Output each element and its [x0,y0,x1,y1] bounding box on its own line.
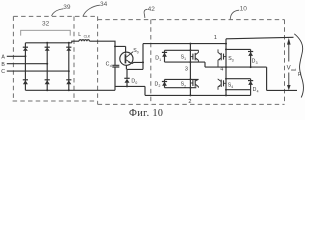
wire phase B [7,63,47,65]
node dot mid-line at right leg [225,66,227,68]
bridge diode lower leg2 [45,80,50,85]
IGBT S1 [190,50,198,62]
bridge leg 2 [46,43,48,91]
label 10 with leader [240,6,248,13]
load R [294,34,303,98]
diode D0 [124,78,129,86]
node A-leg1 junction [24,55,26,57]
node dots S2 cell [189,78,191,80]
svg-text:10: 10 [240,6,248,13]
node dots S4 cell and DC- rail [225,78,227,80]
rectifier bridge 32: top rail [25,42,71,44]
svg-text:R: R [298,72,302,78]
node dots S1 cell [189,49,191,51]
dashed right edge of box 34 / left edge of box 10 [97,16,99,104]
svg-text:0: 0 [137,51,139,55]
wire S2 cell bottom [165,87,197,89]
input terminal C [1,69,5,75]
svg-text:2: 2 [184,84,186,88]
svg-text:4: 4 [231,85,233,89]
node dots DC+ rail [189,43,191,45]
label 42 with leader [148,6,156,13]
node dots S3 cell [225,48,227,50]
label 39 with leader [63,4,71,11]
wire DC+ rail [143,43,226,45]
dashed left edge of box 42 (inverter section) [150,20,152,105]
svg-text:1: 1 [159,58,161,62]
inductor L_CLK [79,40,89,41]
V_out measurement arrow [287,38,291,90]
bridge diode upper leg3 [66,47,71,51]
wire bridge output jog [72,41,79,43]
bridge leg 1 [24,43,26,91]
node 1 [214,35,217,41]
label 32 with bracket over rectifier [42,21,50,28]
svg-text:CLK: CLK [84,35,91,39]
svg-text:2: 2 [159,84,161,88]
node emitter junction [142,61,144,63]
diode D3 [248,49,253,67]
IGBT S3 (mirrored) [218,49,226,67]
wire node 3 step [205,62,267,67]
bridge leg 3 [68,43,70,91]
wire bottom DC- rail [145,94,251,96]
wire S2 cell top [165,78,199,80]
node 2 [188,99,191,105]
dashed enclosure box 39 (rectifier section) [13,16,98,101]
diode D1 [162,50,167,62]
svg-text:Фиг. 10: Фиг. 10 [129,108,163,119]
svg-text:42: 42 [148,6,156,13]
svg-text:B: B [1,62,5,68]
transistor S0 (circled) [120,52,133,66]
bridge diode lower leg3 [66,80,71,85]
svg-text:V: V [287,66,291,72]
wire mid bottom rail (raised) [115,86,145,95]
svg-text:2: 2 [188,99,191,105]
svg-text:A: A [1,54,5,60]
wire S4 cell top [226,78,251,80]
svg-text:1: 1 [214,35,217,41]
wire DC link to switch S0 [115,46,126,53]
dashed divider between box 39 and box 34 [73,16,75,101]
dashed outer box 10 [98,20,285,105]
svg-text:3: 3 [256,61,258,65]
svg-text:0: 0 [135,81,137,85]
wire S0 emitter to corner [132,62,143,63]
svg-text:1: 1 [184,57,186,61]
bridge diode upper leg2 [45,47,50,51]
svg-text:34: 34 [100,1,108,8]
svg-text:4: 4 [220,67,223,73]
svg-text:32: 32 [42,21,50,28]
svg-text:C: C [1,69,5,75]
wire emitter loop [127,44,143,70]
rectifier bridge 32: bottom rail [25,89,115,91]
wire output to load (node 4 line down and right) [267,67,297,90]
wire phase C [7,70,69,72]
IGBT S2 [190,79,198,87]
IGBT S4 (mirrored) [218,79,226,90]
input terminal B [1,62,5,68]
svg-text:out: out [291,68,296,72]
svg-text:4: 4 [257,90,259,94]
wire inductor to DC link [90,41,116,46]
node C-leg3 junction [68,70,70,72]
bridge diode upper leg1 [23,47,28,51]
wire right leg vertical [225,39,227,96]
node B-leg2 junction [46,63,48,65]
wire S4 cell bottom [226,89,251,91]
diode D0 upper lead [126,69,128,78]
capacitor C_d lower lead [114,67,116,90]
wire S1 cell bottom [165,61,206,63]
svg-text:39: 39 [63,4,71,11]
capacitor C_d plates [112,65,119,67]
wire left leg vertical [189,44,191,96]
bridge diode lower leg1 [23,80,28,85]
diode D4 [248,79,253,96]
svg-text:L: L [78,32,81,38]
junction dots on bridge rails [46,42,48,44]
svg-text:3: 3 [232,59,234,63]
input terminal A [1,54,5,60]
wire S3 cell top [226,48,251,50]
capacitor C_d upper lead [114,46,116,65]
svg-text:d: d [110,64,112,68]
wire phase A [7,55,26,57]
wire S0 bottom lead [125,65,127,69]
wire S1 cell top [165,49,199,51]
wire output top rail [226,37,294,39]
node DC link junction [114,45,116,47]
node 4 [220,67,223,73]
svg-text:3: 3 [185,66,188,72]
label 34 with leader [100,1,108,8]
node D0 bottom junction [126,85,128,87]
diode D2 [162,79,167,87]
node 3 [185,66,188,72]
